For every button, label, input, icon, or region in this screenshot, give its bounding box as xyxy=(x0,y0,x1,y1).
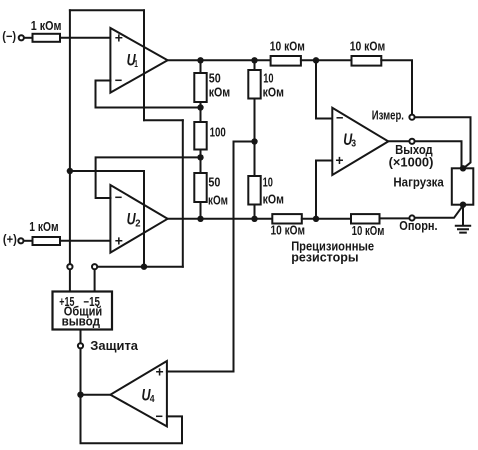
wire reference to load bottom xyxy=(415,206,463,218)
wire 10k cm chain bottom xyxy=(254,205,256,219)
label Общий вывод xyxy=(62,305,103,329)
wire to node B xyxy=(200,150,202,174)
label U4 pin − xyxy=(156,408,164,424)
svg-text:+: + xyxy=(115,232,123,248)
svg-text:+: + xyxy=(115,29,123,45)
svg-text:1 кОм: 1 кОм xyxy=(29,220,58,234)
node Опорн. terminal xyxy=(409,215,414,220)
resistor 10 кОм (top right, feedback) xyxy=(352,56,382,66)
label (×1000) xyxy=(389,155,434,169)
svg-text:10 кОм: 10 кОм xyxy=(350,40,386,54)
svg-text:Опорн.: Опорн. xyxy=(399,219,437,233)
label U3 pin + xyxy=(335,152,343,168)
node supply terminal 2 xyxy=(92,264,97,269)
label U2 xyxy=(127,209,141,229)
label U1 pin + xyxy=(115,29,123,45)
wire (−) input to resistor xyxy=(24,37,32,39)
wire U2 output rail xyxy=(168,218,273,220)
label 100 xyxy=(210,126,226,140)
svg-text:−: − xyxy=(115,72,123,88)
resistor 1 кОм ((+) input) xyxy=(33,237,61,245)
wire guard vertical over U2 xyxy=(143,171,145,267)
svg-text:(−): (−) xyxy=(2,29,16,43)
label (+) xyxy=(3,233,17,247)
power supply box +15 −15 Общий вывод xyxy=(53,292,113,330)
svg-text:1 кОм: 1 кОм xyxy=(31,19,62,33)
node U1 out / 10k chain xyxy=(251,57,257,63)
label +15 xyxy=(59,295,74,309)
svg-text:кОм: кОм xyxy=(263,193,284,207)
wire to node A xyxy=(200,102,202,122)
node J2 junction xyxy=(141,264,147,270)
ground xyxy=(456,205,470,233)
wire guard right vertical xyxy=(182,120,184,267)
resistor 10 кОм (top left) xyxy=(271,56,301,66)
svg-text:Измер.: Измер. xyxy=(372,109,404,123)
wire guard bottom horizontal xyxy=(97,266,182,268)
wire guard down to U4 xyxy=(80,349,82,395)
node Измер. terminal xyxy=(409,115,414,120)
svg-text:−: − xyxy=(115,189,123,205)
svg-text:(×1000): (×1000) xyxy=(389,155,434,169)
node U1 out / 50k chain xyxy=(197,57,203,63)
label −15 xyxy=(83,295,100,309)
svg-text:кОм: кОм xyxy=(263,86,284,100)
wire guard top horizontal xyxy=(70,9,144,11)
node Защита terminal xyxy=(78,343,83,348)
node U3 + tap xyxy=(313,216,319,222)
wire guard J2-J1 horizontal xyxy=(70,170,144,172)
wire 50k chain bottom xyxy=(200,202,202,219)
wire U4 − feedback xyxy=(81,395,183,444)
wire output to load xyxy=(415,141,463,168)
wire supply circle 1 drop xyxy=(69,270,71,292)
node (−) input terminal xyxy=(19,35,24,40)
svg-text:Нагрузка: Нагрузка xyxy=(393,176,444,190)
wire resistor to U2 + input xyxy=(60,240,110,242)
label 10 кОм (bottom right) xyxy=(352,224,385,238)
node load top xyxy=(460,165,466,171)
label 1 кОм (top) xyxy=(31,19,62,33)
svg-text:−: − xyxy=(336,110,344,126)
svg-text:+: + xyxy=(335,152,343,168)
label 10 кОм (top left) xyxy=(270,40,305,54)
wire feedback to sense xyxy=(381,60,412,114)
svg-text:кОм: кОм xyxy=(208,194,228,208)
node 50k chain / U2 out rail xyxy=(197,216,203,222)
svg-text:50: 50 xyxy=(208,175,220,189)
svg-text:10 кОм: 10 кОм xyxy=(352,224,385,238)
wire U1 output rail xyxy=(168,59,271,61)
node 10k chain / U2 out rail xyxy=(251,216,257,222)
label Опорн. xyxy=(399,219,437,233)
node Выход terminal xyxy=(409,139,414,144)
op-amp U2 xyxy=(110,185,167,253)
svg-text:4: 4 xyxy=(150,393,155,405)
label U4 pin + xyxy=(156,363,164,379)
resistor 10 кОм (bottom left) xyxy=(272,214,302,223)
wire supply circle 2 drop xyxy=(94,270,96,292)
label Измер. xyxy=(372,109,404,123)
label Прецизионные резисторы xyxy=(291,239,374,264)
label 10 кОм (vertical upper) xyxy=(263,72,284,100)
wire U4 + input xyxy=(167,371,234,373)
node B xyxy=(197,154,203,160)
wire sense to load xyxy=(415,117,471,168)
op-amp U3 xyxy=(332,108,388,175)
op-amp U4 xyxy=(110,361,166,426)
op-amp U1 xyxy=(110,28,167,93)
svg-text:10: 10 xyxy=(263,72,273,86)
svg-text:вывод: вывод xyxy=(62,315,100,329)
wire 10k cm chain top xyxy=(254,60,256,70)
svg-text:100: 100 xyxy=(210,126,226,140)
svg-text:2: 2 xyxy=(135,218,140,230)
resistor 100 xyxy=(194,122,206,150)
label U3 xyxy=(343,130,356,150)
wire between top resistors xyxy=(301,59,352,61)
label Защита xyxy=(90,339,139,353)
label 10 кОм (bottom left) xyxy=(271,223,306,237)
wire U3 output xyxy=(388,140,409,142)
wire guard left vertical xyxy=(69,10,71,264)
resistor 50 кОм (upper) xyxy=(194,73,206,102)
node A xyxy=(197,104,203,110)
svg-text:резисторы: резисторы xyxy=(291,251,358,265)
svg-text:кОм: кОм xyxy=(209,85,231,99)
resistor 10 кОм (bottom right, reference) xyxy=(351,214,380,223)
label U2 pin + xyxy=(115,232,123,248)
node J1 junction xyxy=(67,168,73,174)
svg-text:+: + xyxy=(156,363,164,379)
node supply terminal 1 xyxy=(67,264,72,269)
svg-text:10 кОм: 10 кОм xyxy=(270,40,305,54)
label 1 кОм (bottom) xyxy=(29,220,58,234)
wire guard from supply box xyxy=(80,330,82,344)
wire U2 feedback loop xyxy=(96,157,198,198)
wire guard vertical over U1 xyxy=(143,10,145,120)
svg-text:1: 1 xyxy=(134,58,138,70)
label 50 кОм (upper) xyxy=(209,71,231,99)
svg-text:10 кОм: 10 кОм xyxy=(271,223,306,237)
node common-mode tap xyxy=(251,138,257,144)
svg-text:50: 50 xyxy=(209,71,221,85)
svg-text:−: − xyxy=(156,408,164,424)
label (−) xyxy=(2,29,16,43)
wire 50k chain top xyxy=(200,60,202,73)
node U3 − tap xyxy=(313,57,319,63)
resistor 50 кОм (lower) xyxy=(194,173,206,202)
wire cm tap to U4 xyxy=(234,142,255,372)
svg-text:3: 3 xyxy=(351,138,356,150)
node (+) input terminal xyxy=(18,238,23,243)
wire to cm node xyxy=(254,99,256,177)
wire U3 − branch xyxy=(316,60,332,118)
wire to reference terminal xyxy=(380,217,410,219)
wire guard jog xyxy=(144,119,183,121)
wire U4 output xyxy=(81,394,111,396)
svg-text:10: 10 xyxy=(263,175,273,189)
label U4 xyxy=(142,385,155,405)
label Нагрузка xyxy=(393,176,444,190)
label 10 кОм (vertical lower) xyxy=(263,175,284,206)
load box Нагрузка xyxy=(452,168,474,204)
wire between bottom resistors xyxy=(302,218,351,220)
svg-text:(+): (+) xyxy=(3,233,17,247)
wire (+) input to resistor xyxy=(24,240,33,242)
resistor 1 кОм ((−) input) xyxy=(33,34,61,42)
node U4 output junction xyxy=(77,392,83,398)
svg-text:Защита: Защита xyxy=(90,339,139,353)
label 50 кОм (lower) xyxy=(208,175,228,207)
wire U1 feedback loop xyxy=(96,81,198,108)
label U1 pin − xyxy=(115,72,123,88)
label 10 кОм (top right) xyxy=(350,40,386,54)
label U3 pin − xyxy=(336,110,344,126)
node load bottom xyxy=(460,202,466,208)
label U1 xyxy=(127,50,138,70)
resistor 10 кОм (vertical upper) xyxy=(248,70,260,99)
label U2 pin − xyxy=(115,189,123,205)
label Выход xyxy=(395,143,433,157)
wire resistor to U1 + input xyxy=(60,37,110,39)
resistor 10 кОм (vertical lower) xyxy=(248,176,260,205)
wire U3 + branch xyxy=(316,161,332,219)
